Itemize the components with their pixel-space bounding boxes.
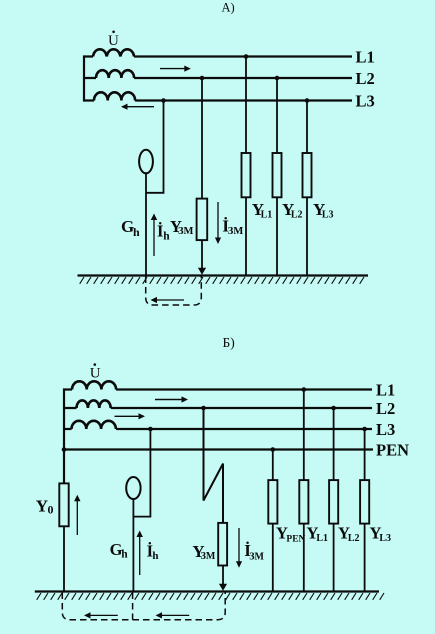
person body wire to earth (fig A)	[145, 173, 147, 275]
person body wire to earth (fig Б)	[132, 499, 134, 592]
wire L3 down to YL3 (fig A)	[306, 101, 308, 154]
wire phase L3 (fig Б)	[63, 428, 372, 430]
wire L2 down to Yзм (fig A)	[201, 78, 203, 199]
wire phase L2 (fig A)	[83, 77, 352, 79]
inductor winding phase L3 (fig Б)	[72, 421, 116, 429]
svg-text:L3: L3	[356, 92, 375, 111]
svg-text:U: U	[108, 33, 119, 49]
inductor winding phase L1 (fig Б)	[72, 381, 116, 389]
label Gh (fig Б)	[110, 540, 129, 561]
admittance YPEN rectangle (fig Б)	[268, 480, 277, 523]
earth return arrow (fig A)	[151, 297, 185, 303]
wire from L3 down to person (fig A)	[146, 101, 164, 193]
earth return arrow right segment (fig Б)	[156, 612, 190, 618]
source voltage label U (fig A)	[108, 31, 119, 50]
admittance YL3 rectangle (fig A)	[303, 153, 312, 197]
label Yзм (fig A)	[170, 217, 194, 237]
wire L2 down to YL2 (fig A)	[276, 78, 278, 153]
wire YL3 to earth (fig Б)	[364, 524, 366, 592]
wire phase L2 (fig Б)	[63, 407, 372, 409]
junction on L2 for Yзм (fig A)	[200, 76, 205, 81]
label Gh (fig A)	[121, 217, 140, 239]
source voltage label U (fig Б)	[90, 363, 101, 381]
wire YL1 to earth (fig A)	[245, 197, 247, 275]
svg-text:PEN: PEN	[286, 535, 305, 545]
earth return current dashed loop (fig A)	[146, 277, 202, 306]
label YL3 (fig Б)	[370, 524, 392, 545]
return current arrow on L3 (fig A)	[121, 104, 154, 110]
wire from L3 down to person (fig Б)	[133, 429, 150, 517]
earth hatching (fig Б)	[37, 593, 384, 600]
svg-text:ЗМ: ЗМ	[228, 226, 244, 237]
svg-text:L1: L1	[376, 381, 395, 400]
current arrow on L3 (fig Б)	[115, 413, 146, 419]
junction of bus and PEN (fig Б)	[62, 447, 67, 452]
wire Yзм to earth with arrow (fig Б)	[219, 566, 227, 591]
wire L3 down to YL3 (fig Б)	[364, 429, 366, 480]
svg-text:Б): Б)	[223, 335, 235, 350]
label YL2 (fig Б)	[338, 524, 360, 545]
svg-text:h: h	[152, 550, 158, 562]
junction on L3 to person (fig Б)	[148, 427, 153, 432]
svg-text:L2: L2	[376, 399, 395, 418]
current arrow Ih up (fig A)	[151, 214, 157, 257]
earth return arrow left segment (fig Б)	[84, 612, 118, 618]
junction on L2 for fault (fig Б)	[201, 406, 206, 411]
label YL1 (fig A)	[252, 200, 273, 220]
junction on L2 for YL2 (fig A)	[275, 76, 280, 81]
wire L2 down to YL2 (fig Б)	[333, 408, 335, 480]
svg-text:ЗМ: ЗМ	[249, 551, 264, 562]
inductor winding phase L3 (fig A)	[94, 92, 135, 100]
svg-text:L2: L2	[348, 533, 360, 544]
inductor winding phase L2 (fig A)	[96, 70, 134, 78]
wire YPEN to earth (fig Б)	[272, 524, 274, 592]
wire phase L1 (fig A)	[83, 55, 352, 57]
admittance YL1 rectangle (fig A)	[242, 153, 251, 197]
earth return current dashed loop (fig Б)	[62, 593, 225, 620]
junction on L2 for YL2 (fig Б)	[331, 406, 336, 411]
junction on L3 for YL3 (fig A)	[305, 98, 310, 103]
svg-text:L2: L2	[291, 209, 303, 220]
current arrow on L2 (fig Б)	[155, 396, 188, 402]
label YL2 (fig A)	[282, 200, 303, 220]
svg-text:L3: L3	[322, 209, 334, 220]
label Iзм (fig Б)	[244, 541, 264, 562]
inductor winding phase L2 (fig Б)	[77, 400, 111, 408]
fault current arrow Iзм down (fig Б)	[236, 528, 242, 568]
label Ih (fig Б)	[147, 542, 159, 562]
wire phase L3 (fig A)	[83, 99, 352, 101]
svg-text:А): А)	[222, 1, 235, 15]
wire left bus with neutral (fig Б)	[63, 389, 65, 484]
svg-text:L3: L3	[379, 533, 391, 544]
fault current arrow Iзм down (fig A)	[215, 202, 221, 244]
wire L1 down to YL1 (fig A)	[245, 57, 247, 154]
svg-text:PEN: PEN	[376, 441, 409, 460]
admittance YL2 rectangle (fig Б)	[329, 480, 338, 523]
wire YL2 to earth (fig A)	[276, 197, 278, 275]
svg-text:L3: L3	[376, 420, 395, 439]
junction on L3 for YL3 (fig Б)	[362, 427, 367, 432]
label YL1 (fig Б)	[307, 524, 329, 545]
wire YL2 to earth (fig Б)	[333, 524, 335, 592]
admittance YL1 rectangle (fig Б)	[299, 480, 308, 523]
label Y0 (fig Б)	[36, 496, 54, 516]
person head ellipse Gh (fig A)	[139, 150, 153, 174]
svg-text:U: U	[90, 366, 101, 382]
wire Y0 to earth (fig Б)	[63, 526, 65, 591]
junction on L1 for YL1 (fig Б)	[302, 387, 307, 392]
earth hatching (fig A)	[80, 277, 364, 284]
admittance Y0 rectangle (fig Б)	[59, 483, 68, 526]
current arrow up beside Y0 (fig Б)	[74, 495, 80, 535]
wire L1 down to YL1 (fig Б)	[303, 390, 305, 481]
svg-text:ЗМ: ЗМ	[178, 226, 194, 237]
junction on L1 for YL1 (fig A)	[244, 54, 249, 59]
person head ellipse Gh (fig Б)	[126, 477, 140, 499]
earth ground line (fig Б)	[35, 590, 379, 592]
svg-text:0: 0	[48, 503, 54, 517]
svg-text:L1: L1	[356, 48, 375, 67]
svg-text:Y: Y	[36, 496, 48, 515]
label Iзм (fig A)	[222, 217, 243, 238]
earth ground line (fig A)	[78, 274, 369, 276]
earth return dashed wire below person (fig Б)	[132, 593, 134, 620]
current arrow Ih up (fig Б)	[137, 531, 143, 576]
admittance Yзм rectangle (fig Б)	[218, 523, 227, 566]
svg-text:L1: L1	[316, 533, 328, 544]
current arrow on L2 (fig A)	[160, 66, 191, 72]
fault lightning bolt wire (fig Б)	[204, 408, 224, 523]
wire left bus (fig A)	[83, 56, 85, 102]
label Yзм (fig Б)	[192, 542, 215, 562]
svg-text:h: h	[133, 225, 140, 239]
label Ih (fig A)	[157, 222, 170, 243]
svg-text:L2: L2	[356, 69, 375, 88]
wire PEN down to YPEN (fig Б)	[272, 450, 274, 481]
wire phase L1 (fig Б)	[63, 388, 372, 390]
junction on L3 to person (fig A)	[161, 98, 166, 103]
admittance Yзм rectangle (fig A)	[197, 199, 208, 241]
wire YL1 to earth (fig Б)	[303, 524, 305, 592]
wire PEN conductor (fig Б)	[64, 448, 373, 450]
label YL3 (fig A)	[313, 200, 334, 220]
admittance YL3 rectangle (fig Б)	[360, 480, 369, 523]
label YPEN (fig Б)	[276, 524, 306, 545]
inductor winding phase L1 (fig A)	[93, 49, 134, 56]
wire YL3 to earth (fig A)	[306, 197, 308, 275]
svg-text:L1: L1	[261, 209, 273, 220]
admittance YL2 rectangle (fig A)	[273, 153, 282, 197]
wire Yзм to earth with arrow (fig A)	[198, 240, 206, 275]
svg-text:ЗМ: ЗМ	[201, 551, 216, 562]
junction on PEN for YPEN (fig Б)	[271, 447, 276, 452]
svg-text:h: h	[121, 549, 128, 561]
